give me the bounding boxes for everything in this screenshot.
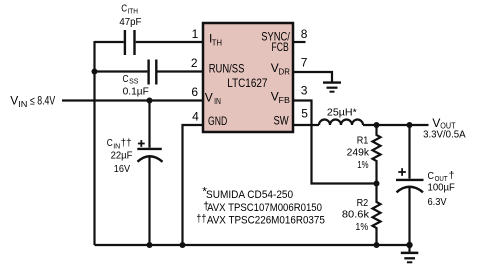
svg-text:DR: DR — [279, 67, 291, 76]
wire C_OUT to bottom rail — [408, 188, 410, 245]
svg-text:7: 7 — [301, 56, 308, 70]
svg-text:1%: 1% — [355, 222, 368, 233]
svg-text:6: 6 — [191, 85, 198, 99]
svg-text:C: C — [428, 170, 435, 182]
svg-text:FB: FB — [279, 96, 290, 105]
wire pin 7 to ground — [293, 72, 332, 82]
junction dot C_IN / rail — [147, 242, 153, 248]
capacitor C_IN wire from VIN — [148, 101, 150, 148]
junction dot R1/R2/VFB — [374, 181, 380, 187]
junction dot GND wire / rail — [180, 242, 186, 248]
svg-text:††: †† — [121, 138, 132, 149]
note double dagger AVX TPSC226M016R0375 — [196, 213, 325, 226]
svg-text:V: V — [271, 61, 279, 75]
wire pin 5 SW to inductor — [293, 124, 319, 126]
label C_SS — [123, 74, 139, 86]
ground symbol at VDR — [323, 83, 341, 92]
svg-text:8: 8 — [301, 27, 308, 41]
wire pin 8 stub — [293, 41, 306, 43]
wire pin 3 VFB to R1/R2 divider — [293, 101, 377, 184]
capacitor C_IN plus sign — [138, 140, 145, 147]
svg-text:25µH*: 25µH* — [327, 107, 357, 119]
U1 pin label VFB — [271, 90, 290, 106]
svg-text:R1: R1 — [357, 136, 369, 147]
svg-text:5: 5 — [301, 107, 308, 121]
svg-text:IN: IN — [113, 141, 120, 150]
svg-text:RUN/SS: RUN/SS — [209, 62, 245, 76]
note star SUMIDA CD54-250 — [202, 184, 293, 201]
U1 pin label SYNC/FCB — [261, 30, 290, 54]
label C_IN — [107, 138, 132, 150]
wire C_SS left to ground vertical — [95, 70, 148, 72]
svg-text:LTC1627: LTC1627 — [227, 78, 267, 90]
svg-text:100µF: 100µF — [428, 181, 455, 193]
junction dot C_OUT / rail / ground — [406, 242, 412, 248]
ground symbol bottom right — [408, 245, 410, 252]
junction dot VOUT / C_OUT — [407, 122, 413, 128]
svg-text:C: C — [121, 4, 127, 15]
wire C_IN to bottom rail — [148, 157, 150, 245]
svg-text:SW: SW — [274, 113, 290, 127]
node VOUT label — [432, 116, 455, 131]
svg-text:FCB: FCB — [272, 40, 289, 54]
svg-text:TH: TH — [212, 39, 222, 48]
junction dot R2 / rail — [374, 242, 380, 248]
svg-text:4: 4 — [192, 110, 199, 124]
svg-text:AVX TPSC107M006R0150: AVX TPSC107M006R0150 — [207, 202, 322, 214]
node VIN input label — [10, 94, 55, 109]
bottom ground rail — [95, 244, 410, 246]
label C_OUT — [428, 170, 455, 183]
svg-text:1: 1 — [192, 27, 199, 41]
svg-text:3: 3 — [301, 84, 308, 98]
capacitor C_OUT plates — [396, 180, 424, 192]
capacitor C_IN plates — [137, 149, 162, 162]
svg-text:V: V — [271, 90, 279, 104]
svg-text:0.1µF: 0.1µF — [123, 86, 149, 97]
svg-text:GND: GND — [208, 114, 227, 128]
junction dot C_SS / ground vertical — [92, 69, 98, 75]
capacitor C_ITH — [125, 30, 135, 55]
svg-text:16V: 16V — [114, 164, 131, 175]
U1 pin label VDR — [271, 61, 290, 77]
svg-text:C: C — [107, 138, 113, 149]
svg-text:2: 2 — [191, 56, 198, 70]
svg-text:6.3V: 6.3V — [428, 196, 447, 208]
IC U1 LTC1627 body — [203, 23, 293, 132]
svg-text:IN: IN — [18, 100, 27, 109]
svg-text:†: † — [449, 170, 455, 182]
svg-text:R2: R2 — [357, 198, 369, 209]
wire ground vertical from C_ITH down to bottom rail — [93, 41, 95, 245]
svg-text:V: V — [205, 90, 213, 104]
capacitor C_OUT plus sign — [398, 168, 406, 176]
svg-text:††: †† — [196, 213, 206, 225]
junction dot VIN / C_IN — [147, 98, 153, 104]
svg-text:ITH: ITH — [128, 7, 139, 16]
svg-text:C: C — [123, 74, 129, 85]
svg-text:1%: 1% — [357, 160, 368, 171]
junction dot SW node / R1 — [374, 122, 380, 128]
svg-text:IN: IN — [214, 97, 221, 106]
svg-text:SS: SS — [129, 77, 138, 86]
capacitor C_SS — [149, 60, 157, 85]
resistor R2 80.6k — [373, 184, 381, 246]
wire pin 4 GND down to bottom rail — [183, 125, 204, 245]
U1 pin label VIN — [205, 90, 221, 106]
svg-text:47pF: 47pF — [119, 17, 141, 28]
svg-text:V: V — [10, 94, 18, 108]
label C_ITH — [121, 4, 138, 16]
U1 pin label ITH — [209, 31, 222, 47]
svg-text:SUMIDA CD54-250: SUMIDA CD54-250 — [206, 189, 293, 201]
svg-text:249k: 249k — [347, 147, 370, 158]
capacitor C_OUT wire from VOUT — [408, 125, 410, 179]
svg-text:3.3V/0.5A: 3.3V/0.5A — [423, 129, 466, 141]
wire inductor to VOUT — [363, 124, 429, 126]
svg-text:≤ 8.4V: ≤ 8.4V — [30, 96, 55, 108]
inductor L1 25uH — [319, 120, 363, 125]
wire VIN input to pin 6 — [62, 99, 203, 101]
wire C_ITH to pin 1 — [136, 41, 203, 43]
svg-text:80.6k: 80.6k — [342, 209, 370, 220]
wire pin1 to C_ITH left — [95, 41, 124, 43]
resistor R1 249k — [373, 125, 381, 184]
svg-text:AVX TPSC226M016R0375: AVX TPSC226M016R0375 — [207, 214, 325, 226]
note dagger AVX TPSC107M006R0150 — [203, 201, 322, 214]
wire C_SS to pin 2 — [158, 70, 204, 72]
svg-text:22µF: 22µF — [111, 151, 133, 162]
